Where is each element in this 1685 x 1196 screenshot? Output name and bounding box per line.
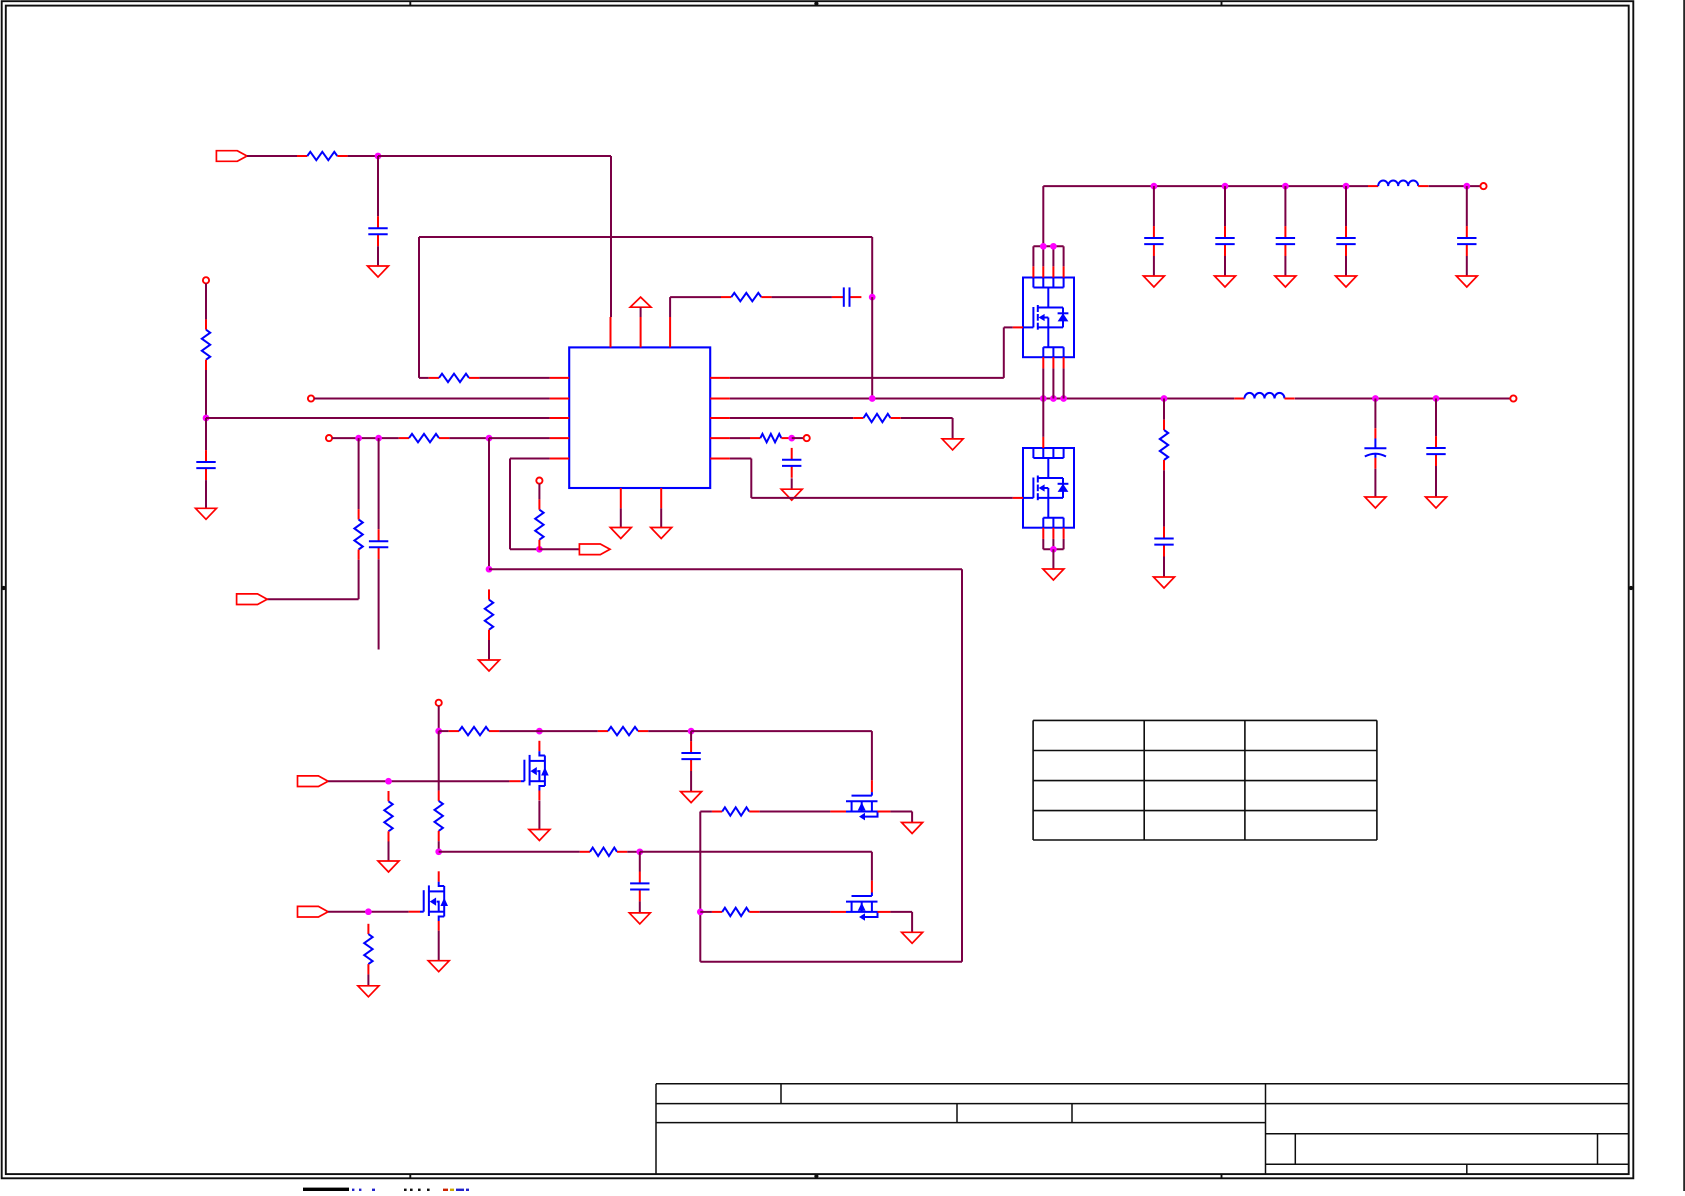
ground — [196, 508, 217, 519]
wire node N to C9 — [639, 852, 641, 872]
wire VOUT cap2 drop — [1435, 399, 1437, 437]
ground — [610, 528, 631, 539]
wire IC pgood loop — [510, 459, 550, 550]
junction VOUT node 1 — [1372, 395, 1379, 402]
wire node J to R10 — [439, 730, 449, 732]
wire R1 to node A — [348, 155, 378, 157]
wire node M to R13 — [439, 851, 580, 853]
capacitor C2 — [196, 450, 215, 480]
capacitor C9 — [630, 872, 649, 902]
transistor Q5 — [830, 780, 890, 820]
resistor R5 — [1160, 420, 1168, 471]
junction VIN node 3 — [1282, 183, 1289, 190]
wire R8 to ground — [488, 640, 490, 660]
power VCC arrow — [630, 297, 651, 307]
wire R10 to node K — [499, 730, 539, 732]
junction node I — [536, 546, 543, 553]
wire node D down — [358, 438, 360, 509]
wire C5 red lead — [1374, 428, 1376, 438]
page right edge line — [1683, 0, 1685, 1191]
resistor R9 — [535, 499, 543, 550]
ground — [358, 986, 379, 997]
ground — [1154, 577, 1175, 588]
junction node M — [435, 848, 442, 855]
wire R5 to C4 — [1163, 470, 1165, 526]
wire R6 to node F — [449, 437, 489, 439]
wire IC lg pin to Q2 gate — [730, 459, 1013, 498]
wire IC hg pin to Q1 gate — [730, 327, 1013, 378]
ground — [681, 792, 702, 803]
border zone tick bottom 1 — [409, 1174, 411, 1178]
wire R2 to node B — [205, 370, 207, 418]
wire R4 to C3 — [772, 296, 832, 298]
ground — [942, 439, 963, 450]
wire VIN cap 5 drop — [1466, 186, 1468, 226]
resistor R14 — [712, 908, 760, 916]
capacitor C12 — [1215, 226, 1234, 256]
terminal T1 — [203, 277, 209, 283]
wire node A down to C1 — [377, 156, 379, 216]
terminal T8 output — [1510, 395, 1516, 401]
wire T1 to R2 — [205, 283, 207, 319]
wire node J down — [438, 731, 440, 791]
resistor R6 — [399, 434, 450, 442]
wire R18 to node M — [438, 841, 440, 852]
border zone tick bottom 3 — [1221, 1174, 1223, 1178]
junction VIN node 2 — [1222, 183, 1229, 190]
wire Q4 source to ground — [438, 931, 440, 961]
port J1 input — [216, 151, 247, 162]
resistor R8 — [485, 589, 493, 640]
border zone tick right center — [1629, 586, 1634, 590]
wire node F down — [488, 438, 490, 569]
port J4 enable1 — [298, 776, 329, 787]
junction SW node 3 — [1050, 395, 1057, 402]
terminal T7 VIN — [1480, 183, 1486, 189]
terminal T4 — [536, 478, 542, 484]
wire R19 to ground — [388, 841, 390, 861]
resistor R11 — [598, 727, 649, 735]
wire VIN cap 4 drop — [1345, 186, 1347, 226]
wire C1 to ground — [377, 246, 379, 266]
wire R15 to ground — [367, 974, 369, 985]
wire VOUT cap1 drop — [1374, 399, 1376, 429]
wire L1 to T7 — [1429, 185, 1481, 187]
wire Q2 source join — [1043, 539, 1063, 549]
wire SW bus — [730, 398, 1234, 400]
wire R3 to IC — [479, 377, 549, 379]
ground — [428, 961, 449, 972]
wire node E down to C7 — [378, 438, 380, 529]
ground — [902, 823, 923, 834]
capacitor C4 — [1154, 527, 1173, 557]
junction node J — [435, 728, 442, 735]
wire C6 to ground — [1435, 466, 1437, 497]
footer text strip — [303, 1188, 469, 1191]
ground — [1143, 276, 1164, 287]
wire node N to Q6 gate — [640, 852, 872, 881]
inductor L2 — [1234, 393, 1294, 399]
ground — [378, 861, 399, 872]
resistor R15 — [364, 924, 372, 975]
wire IC bottom pin1 to ground — [620, 508, 622, 527]
ground — [1426, 497, 1447, 508]
capacitor C6 — [1426, 436, 1445, 466]
wire VIN cap 2 ground — [1224, 256, 1226, 276]
junction SW node 5 — [1161, 395, 1168, 402]
wire loop to R12 — [700, 811, 712, 813]
ground — [368, 266, 389, 277]
resistor R13 — [580, 848, 628, 856]
wire power arrow stem — [640, 307, 642, 317]
wire node B down to C2 — [205, 418, 207, 450]
wire R7 to port J2 — [267, 560, 358, 599]
terminal T3 — [326, 435, 332, 441]
capacitor C8 — [681, 741, 700, 771]
inductor L1 — [1368, 181, 1428, 187]
wire J4 to Q3 gate — [328, 780, 509, 782]
wire port J1 to R1 — [247, 155, 297, 157]
wire node B bus to IC pin FB — [206, 417, 550, 419]
wire node R to R14 — [700, 911, 712, 913]
wire C8 to ground — [690, 771, 692, 792]
transistor Q3 — [509, 741, 548, 800]
wire L2 to output terminal — [1295, 398, 1510, 400]
capacitor C13 — [1276, 226, 1295, 256]
resistor R10 — [449, 727, 500, 735]
wire VIN cap 1 drop — [1153, 186, 1155, 226]
border zone tick top 1 — [409, 1, 411, 5]
terminal T5 — [436, 700, 442, 706]
ground — [1336, 276, 1357, 287]
ground — [1365, 497, 1386, 508]
port J3 output — [579, 544, 610, 555]
capacitor C11 — [1144, 226, 1163, 256]
resistor R18 — [435, 791, 443, 842]
wire Q1 drain bus — [1033, 246, 1063, 266]
ground — [529, 830, 550, 841]
port J5 enable2 — [298, 906, 329, 917]
junction node A — [375, 153, 382, 160]
wire C5 to ground — [1374, 469, 1376, 497]
wire Q1 source to SW bus — [1043, 368, 1063, 398]
capacitor C10 — [782, 448, 801, 478]
junction SW node 2 — [1040, 395, 1047, 402]
wire SW to Q2 drain — [1042, 399, 1044, 437]
wire VIN cap 3 drop — [1284, 186, 1286, 226]
wire Q3 source to ground — [538, 801, 540, 830]
junction node R — [697, 909, 704, 916]
resistor R3 — [429, 374, 480, 382]
wire IC comp pin — [730, 417, 853, 419]
wire node K to R11 — [539, 730, 597, 732]
port J2 track — [237, 594, 268, 605]
terminal T2 — [308, 395, 314, 401]
wire T3 to R6 — [332, 437, 399, 439]
component table — [1033, 720, 1377, 840]
junction node Q — [365, 908, 372, 915]
junction Q1 drain node 1 — [1040, 243, 1047, 250]
junction node L — [688, 728, 695, 735]
border zone tick bottom center — [814, 1174, 818, 1178]
wire C9 to ground — [639, 901, 641, 913]
junction node C — [869, 294, 876, 301]
ground — [1456, 276, 1477, 287]
wire IC ss pin — [730, 437, 750, 439]
terminal T6 — [804, 435, 810, 441]
ground — [629, 913, 650, 924]
transistor Q4 — [409, 871, 448, 930]
wire C4 to ground — [1163, 557, 1165, 578]
resistor R17 — [750, 434, 792, 442]
junction node F — [486, 435, 493, 442]
junction Q1 drain node 2 — [1050, 243, 1057, 250]
wire IC pin BST loop — [419, 377, 429, 379]
wire SW snubber — [1163, 399, 1165, 420]
junction Q2 source node — [1050, 546, 1057, 553]
junction VIN node 5 — [1463, 183, 1470, 190]
wire VIN cap 1 ground — [1153, 256, 1155, 276]
wire Q6 to ground — [890, 912, 912, 932]
resistor R7 — [354, 509, 362, 560]
wire node I to port J3 — [539, 548, 579, 550]
transistor Q2 low-side — [1013, 437, 1074, 539]
wire VIN cap 2 drop — [1224, 186, 1226, 226]
junction VIN node 4 — [1343, 183, 1350, 190]
ground — [902, 932, 923, 943]
resistor R1 — [297, 152, 348, 160]
junction SW node 4 — [1060, 395, 1067, 402]
wire C10 to ground — [791, 478, 793, 489]
resistor R12 — [712, 807, 760, 815]
junction node E — [375, 435, 382, 442]
wire node H to T6 — [792, 437, 804, 439]
border zone tick top center — [814, 1, 818, 6]
junction SW node 1 — [869, 395, 876, 402]
capacitor C15 — [1457, 226, 1476, 256]
wire R13 to node N — [627, 851, 640, 853]
junction VOUT node 2 — [1433, 395, 1440, 402]
wire R14 to Q6 — [760, 911, 831, 913]
border zone tick left center — [2, 586, 6, 590]
wire J5 to Q4 gate — [328, 911, 409, 913]
wire VIN cap 5 ground — [1466, 256, 1468, 276]
wire R12 to Q5 — [760, 811, 831, 813]
wire loop up and across — [419, 237, 872, 378]
wire node G big loop — [489, 569, 962, 962]
wire C7 dangling end — [378, 559, 380, 649]
wire VIN cap 4 ground — [1345, 256, 1347, 276]
capacitor C14 — [1336, 226, 1355, 256]
wire Q2 source to ground — [1052, 549, 1054, 569]
ground — [1043, 569, 1064, 580]
resistor R2 — [202, 319, 210, 370]
resistor R16 — [853, 414, 901, 422]
ground — [1215, 276, 1236, 287]
wire C2 to ground — [205, 480, 207, 508]
wire node L to C8 — [690, 731, 692, 741]
junction node B — [203, 415, 210, 422]
junction node G — [486, 566, 493, 573]
junction node P — [385, 778, 392, 785]
ground — [479, 660, 500, 671]
ground — [1275, 276, 1296, 287]
wire IC bottom pin2 to ground — [660, 508, 662, 527]
transistor Q6 — [830, 881, 890, 921]
resistor R19 — [384, 791, 392, 842]
wire R11 to node L — [648, 730, 691, 732]
title block frame — [656, 1084, 1629, 1174]
junction VIN node 1 — [1151, 183, 1158, 190]
wire R16 to ground — [901, 418, 953, 439]
wire VIN cap 3 ground — [1284, 256, 1286, 276]
wire T2 to IC pin EN — [314, 398, 549, 400]
wire node F to IC — [489, 437, 550, 439]
junction node H — [788, 435, 795, 442]
junction node K — [536, 728, 543, 735]
border zone tick top 3 — [1221, 1, 1223, 5]
transistor Q1 high-side — [1013, 266, 1074, 368]
capacitor C7 — [369, 529, 388, 559]
ground — [781, 489, 802, 500]
ground — [651, 528, 672, 539]
junction node N — [636, 848, 643, 855]
resistor R4 — [721, 293, 772, 301]
IC U1 controller — [550, 317, 730, 508]
junction node D — [355, 435, 362, 442]
wire VIN bus — [1043, 186, 1368, 246]
wire node A to IC pin feed — [378, 156, 611, 317]
wire node C down to SW bus — [871, 297, 873, 398]
capacitor C1 — [368, 216, 387, 246]
wire T4 to R9 — [538, 484, 540, 500]
capacitor C5 polarized — [1364, 439, 1386, 469]
wire node L to Q5 gate — [691, 731, 872, 780]
wire IC top pin3 up — [670, 297, 721, 317]
capacitor C3 — [832, 287, 862, 306]
wire T5 down — [438, 706, 440, 731]
wire Q5 to ground — [890, 812, 912, 823]
